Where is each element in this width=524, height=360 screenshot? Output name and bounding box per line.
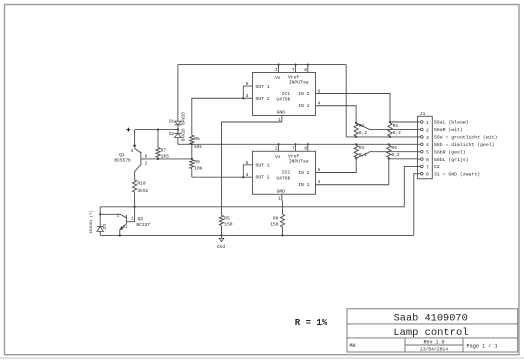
wire IC1 OUT bracket: [242, 86, 252, 99]
junction R3 top: [355, 143, 357, 145]
wire R6 to R9: [191, 144, 193, 159]
svg-text:Gnd: Gnd: [217, 244, 226, 250]
svg-text:7: 7: [292, 146, 295, 152]
svg-text:MH: MH: [350, 343, 356, 349]
wire IC2 IN1 to R4: [316, 159, 389, 185]
svg-text:R1: R1: [393, 123, 399, 129]
svg-text:Vs: Vs: [275, 75, 281, 81]
junction R2 bottom: [355, 136, 357, 138]
svg-text:2: 2: [275, 146, 278, 152]
svg-text:J1: J1: [420, 111, 426, 117]
svg-text:56a = grootlicht (wit): 56a = grootlicht (wit): [434, 135, 497, 141]
svg-text:IN 2: IN 2: [298, 91, 309, 97]
wire IC1 IN2 to R1: [316, 94, 391, 123]
junction IC2 pin8: [307, 143, 309, 145]
wire J1 pin8 to ground rail: [414, 174, 420, 236]
resistor R4 0,2: [387, 145, 400, 158]
svg-text:OUT 2: OUT 2: [256, 96, 270, 102]
svg-text:7: 7: [426, 164, 429, 170]
svg-text:Rev 1.0: Rev 1.0: [423, 340, 444, 346]
junction R5 to ground rail: [220, 234, 222, 236]
svg-text:3k92: 3k92: [137, 188, 148, 194]
svg-text:IN 2: IN 2: [298, 170, 309, 176]
svg-text:56b = dimlicht (geel): 56b = dimlicht (geel): [434, 142, 495, 148]
wire ground rail: [100, 234, 414, 236]
junction left rail / Q2 collector: [99, 213, 101, 215]
junction R4 bottom: [388, 157, 390, 159]
junction IC1 pin7: [294, 64, 296, 66]
svg-text:1N4001 (?): 1N4001 (?): [89, 210, 94, 233]
ground symbol Gnd: [217, 235, 226, 250]
svg-text:IC2: IC2: [282, 170, 291, 176]
svg-text:U479b: U479b: [276, 175, 290, 181]
svg-text:D2: D2: [169, 133, 175, 137]
svg-text:10k: 10k: [194, 165, 203, 171]
svg-text:Q1: Q1: [119, 152, 125, 158]
svg-text:OUT 2: OUT 2: [256, 175, 270, 181]
svg-text:BAV20: BAV20: [182, 128, 186, 141]
junction R3 bottom: [355, 157, 357, 159]
svg-text:0,2: 0,2: [359, 130, 368, 136]
wire IC2 GND to R8: [282, 201, 284, 215]
wire IC1 OUT to R6: [192, 98, 244, 135]
svg-text:U479b: U479b: [276, 97, 290, 103]
wire IC1 GND to R5: [222, 122, 282, 215]
junction R6 bottom: [191, 143, 193, 145]
svg-text:R8: R8: [273, 216, 279, 222]
wire IC1 IN1 to R2: [316, 106, 357, 123]
junction IC1 pin2: [277, 64, 279, 66]
svg-text:OUT 1: OUT 1: [256, 84, 270, 90]
svg-text:5: 5: [426, 150, 429, 156]
svg-text:BAV20: BAV20: [182, 112, 186, 125]
resistor R3 0,2: [354, 145, 367, 158]
op-amp IC1 U479b: [246, 65, 321, 123]
wire R2/R1 bottom to J1 pin3: [346, 136, 420, 138]
svg-text:IN 1: IN 1: [298, 103, 309, 109]
wire C2 rail to J1 pin7: [100, 166, 420, 206]
wire left rail: [99, 207, 101, 236]
wire top rail to D1: [177, 65, 179, 122]
svg-text:8: 8: [304, 67, 307, 73]
wire Q2 emitter to ground rail: [119, 229, 121, 236]
svg-text:8: 8: [304, 146, 307, 152]
diode D2 BAV20: [169, 128, 186, 144]
svg-text:GND: GND: [277, 110, 286, 116]
svg-text:13/04/2014: 13/04/2014: [420, 347, 448, 353]
junction IC1 pin8: [307, 64, 309, 66]
svg-text:10k: 10k: [194, 144, 203, 150]
junction R8 to ground rail: [281, 234, 283, 236]
junction R1 top: [389, 121, 391, 123]
svg-text:3: 3: [426, 135, 429, 141]
svg-text:D3: D3: [104, 224, 108, 230]
resistor R5 150: [219, 215, 232, 235]
title block: [347, 309, 518, 353]
wire Q1 collector to R10: [135, 164, 141, 179]
wire plus to diode junction: [135, 129, 178, 131]
svg-text:R10: R10: [137, 181, 146, 187]
svg-text:Vs: Vs: [275, 154, 281, 160]
resistor R2 0,2: [354, 123, 367, 136]
svg-text:0,2: 0,2: [393, 130, 402, 136]
svg-text:56bR (geel): 56bR (geel): [434, 149, 466, 155]
wire R2 diagonal to J1 pin2: [356, 123, 420, 129]
svg-text:IN 1: IN 1: [298, 182, 309, 188]
junction R7 bottom: [157, 158, 159, 160]
svg-text:56bL (grijs): 56bL (grijs): [434, 157, 469, 163]
resistor R6 10k: [190, 135, 203, 150]
junction IC2 pin2: [277, 143, 279, 145]
svg-text:31 = GND (zwart): 31 = GND (zwart): [434, 171, 480, 177]
svg-text:OUT 1: OUT 1: [256, 163, 270, 169]
junction R2 top: [355, 122, 357, 124]
junction diodes to + wire: [177, 128, 179, 130]
svg-text:56aR (wit): 56aR (wit): [434, 127, 463, 133]
svg-text:D1: D1: [169, 121, 175, 125]
wire INPUTsw rail to J1 pin4: [178, 143, 420, 145]
wire R1 to J1 pin1: [390, 121, 420, 123]
svg-text:IC1: IC1: [282, 91, 291, 97]
svg-text:Saab 4109070: Saab 4109070: [394, 312, 468, 324]
svg-text:D1: D1: [123, 226, 128, 230]
diode D3 1N4001: [89, 210, 108, 233]
svg-text:0,2: 0,2: [391, 152, 400, 158]
svg-text:2: 2: [426, 127, 429, 133]
junction IC2 pin7: [294, 143, 296, 145]
note R tolerance: [295, 318, 328, 328]
svg-text:GND: GND: [277, 188, 286, 194]
svg-text:2: 2: [275, 67, 278, 73]
plus supply mark: [127, 128, 131, 132]
svg-text:1: 1: [426, 120, 429, 126]
diode D1 BAV20: [169, 112, 186, 130]
transistor Q1 BC557b: [114, 145, 147, 167]
svg-text:R7: R7: [161, 148, 167, 154]
svg-text:4: 4: [318, 179, 321, 185]
junction R9 top / Q1 base: [191, 158, 193, 160]
svg-text:Q2: Q2: [138, 216, 144, 222]
svg-text:BC337: BC337: [136, 222, 150, 228]
wire IC2 IN2 to R3: [316, 158, 357, 172]
svg-text:8: 8: [426, 172, 429, 178]
svg-text:R2: R2: [359, 123, 365, 129]
svg-text:INPUTsw: INPUTsw: [289, 80, 309, 86]
svg-text:150: 150: [224, 221, 233, 227]
junction R7 top: [157, 129, 159, 131]
svg-text:R5: R5: [224, 215, 230, 221]
svg-text:R9: R9: [194, 159, 200, 165]
resistor R10 3k92: [133, 180, 149, 194]
wire R4 to J1 pin6: [389, 158, 420, 160]
wire R3 diagonal to J1 pin5: [356, 152, 420, 159]
wire top rail drop to R2 bottom: [345, 65, 347, 137]
svg-text:INPUTsw: INPUTsw: [289, 158, 309, 164]
svg-text:C2: C2: [434, 164, 440, 170]
resistor R8 150: [270, 214, 284, 235]
wire IC2 OUT bracket: [242, 165, 252, 178]
wire Q1 base: [141, 158, 192, 160]
svg-text:1: 1: [278, 196, 281, 202]
svg-text:4: 4: [426, 142, 429, 148]
resistor R1 0,2: [388, 123, 401, 136]
op-amp IC2 U479b: [246, 143, 321, 201]
transistor Q2 BC337: [117, 215, 151, 231]
svg-text:Page 1 / 1: Page 1 / 1: [467, 343, 498, 349]
wire Vs top rail: [178, 64, 346, 66]
junction R4 top: [388, 143, 390, 145]
wire Q1 emitter to plus: [134, 130, 136, 146]
svg-text:R3: R3: [359, 145, 365, 151]
wire R9 to IC2 OUT: [192, 176, 244, 178]
svg-text:R4: R4: [391, 145, 397, 151]
svg-text:Lamp control: Lamp control: [393, 327, 468, 339]
junction rail / R10 line: [134, 206, 136, 208]
svg-text:6: 6: [426, 157, 429, 163]
svg-text:R = 1%: R = 1%: [295, 318, 328, 328]
svg-text:7: 7: [292, 67, 295, 73]
svg-text:56aL (blauw): 56aL (blauw): [434, 120, 469, 126]
wire R10 to Q2 base: [126, 192, 134, 221]
svg-text:BC557b: BC557b: [114, 158, 131, 164]
svg-text:R6: R6: [194, 136, 200, 142]
connector J1: [418, 111, 498, 179]
resistor R9 10k: [190, 159, 203, 177]
svg-text:150: 150: [270, 222, 279, 228]
junction R1 bottom: [389, 136, 391, 138]
wire left rail to Q2 collector: [100, 214, 126, 218]
resistor R7 1k5: [156, 130, 169, 160]
